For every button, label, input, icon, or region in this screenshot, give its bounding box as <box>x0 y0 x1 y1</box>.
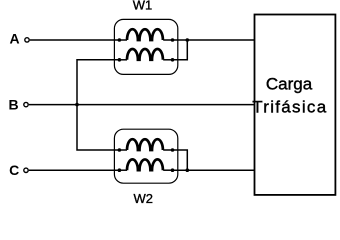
svg-text:B: B <box>9 96 19 112</box>
svg-text:W2: W2 <box>133 191 153 206</box>
terminal B <box>24 102 28 106</box>
wire A to W1 top coil <box>30 39 120 41</box>
wire vertical from B junction <box>77 60 119 150</box>
svg-text:Carga: Carga <box>266 75 313 94</box>
node junction W2 right <box>186 168 190 172</box>
wire C to W2 bottom coil <box>29 169 120 171</box>
svg-text:W1: W1 <box>133 0 153 13</box>
W2 top coil <box>118 139 175 152</box>
load box Carga Trifasica <box>255 15 336 195</box>
wire B to load <box>29 104 255 106</box>
transformer W2 box <box>114 129 177 183</box>
transformer W1 box <box>114 19 177 74</box>
W1 top coil <box>118 29 175 42</box>
wire W1 bottom coil up to node <box>173 40 188 60</box>
terminal C <box>24 168 28 172</box>
wire W1 top coil to load <box>173 39 255 41</box>
wire W2 bottom coil to load <box>173 169 255 171</box>
node junction W1 right <box>186 38 190 42</box>
terminal A <box>25 38 29 42</box>
wire W2 top coil down to node <box>173 150 188 170</box>
svg-text:A: A <box>9 31 19 47</box>
svg-text:C: C <box>9 162 19 178</box>
W1 bottom coil <box>118 49 175 62</box>
svg-text:Trifásica: Trifásica <box>252 98 327 117</box>
node junction on B wire <box>75 103 79 107</box>
W2 bottom coil <box>118 159 175 172</box>
